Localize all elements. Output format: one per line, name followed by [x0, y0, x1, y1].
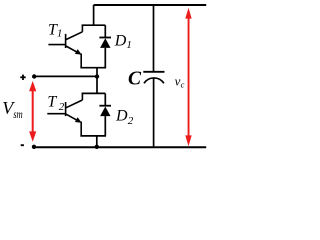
transistor Q T2 (IGBT)	[47, 93, 82, 137]
wire T2 emitter lead	[96, 136, 98, 147]
label + (positive terminal)	[20, 75, 25, 80]
wire T1/D1 top bar	[82, 24, 106, 26]
node + terminal dot	[32, 74, 36, 78]
wire T2/D2 bottom bar	[80, 135, 106, 137]
diode D2	[99, 93, 111, 136]
wire bottom rail	[34, 146, 206, 148]
node vc measurement arrow (red, double-headed)	[185, 8, 191, 147]
wire middle rail	[34, 75, 98, 77]
T2 emitter arrowhead	[75, 117, 82, 123]
wire T1/D1 bottom bar	[80, 67, 106, 69]
wire T1 collector lead	[93, 5, 95, 25]
node bottom junction dot	[95, 145, 99, 149]
capacitor C	[143, 5, 164, 147]
node Vsm measurement arrow (red, double-headed)	[29, 81, 36, 142]
diode D1	[99, 25, 111, 68]
node midpoint junction dot	[95, 74, 99, 78]
transistor Q T1 (IGBT)	[48, 25, 82, 69]
wire T2/D2 top bar	[82, 92, 106, 94]
wire midpoint lead (T1 emitter / T2 collector)	[96, 68, 98, 94]
wire top rail	[94, 4, 207, 6]
label - (negative terminal)	[21, 144, 24, 146]
svg-text:C: C	[128, 69, 142, 90]
T1 emitter arrowhead	[75, 49, 82, 55]
node - terminal dot	[32, 145, 36, 149]
